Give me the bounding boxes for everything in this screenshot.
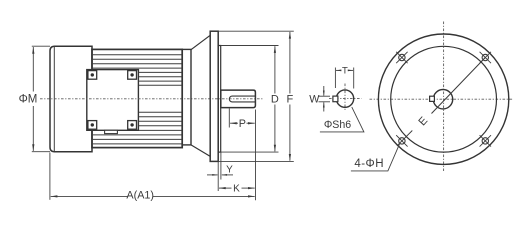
flange view crosshair horizontal: [370, 98, 514, 100]
dimension K right extension / shaft end extension: [255, 110, 257, 201]
dimension Y extensions: [217, 162, 219, 191]
svg-text:T: T: [342, 66, 348, 77]
dimension PhiM extension bottom: [32, 151, 50, 153]
terminal plate: [87, 70, 139, 131]
fan cover: [50, 46, 92, 152]
bolt hole bottom-left: [396, 131, 412, 147]
flange outer circle: [378, 34, 508, 164]
dimension PhiM line lower: [32, 106, 34, 151]
svg-text:E: E: [416, 115, 430, 128]
shaft: [221, 90, 256, 108]
shaft section keyway: [333, 96, 338, 102]
bolt square bottom-left: [88, 121, 97, 130]
svg-text:Y: Y: [226, 165, 233, 176]
dimension F line: [289, 32, 291, 94]
dimension D extensions: [221, 45, 279, 47]
keyway slot: [229, 96, 255, 102]
flange spigot: [218, 46, 221, 153]
dimension W extensions: [319, 95, 331, 97]
svg-text:K: K: [233, 184, 240, 195]
dimension A(A1) left extension: [49, 153, 51, 200]
svg-text:ΦSh6: ΦSh6: [324, 119, 351, 131]
4-PhiH leader: [351, 144, 400, 171]
cooling fins top: [92, 55, 182, 85]
shaft section crosshair: [329, 98, 362, 100]
end bracket: [182, 49, 191, 144]
flange keyway: [430, 96, 435, 101]
flange plate side: [210, 31, 218, 161]
flange view crosshair vertical: [443, 22, 445, 172]
dimension K line: [219, 187, 232, 189]
bolt hole bottom-right: [480, 135, 491, 146]
dimension Y arrows: [207, 174, 218, 176]
dimension A(A1) line: [51, 195, 128, 197]
svg-text:W: W: [309, 94, 320, 106]
dimension P left extension: [228, 109, 230, 128]
dimension T line: [336, 69, 341, 71]
E radius line upper: [432, 58, 486, 114]
plate notch: [105, 130, 118, 133]
bolt hole top-right: [480, 52, 491, 63]
dimension T extensions: [334, 68, 336, 89]
svg-text:4-ΦH: 4-ΦH: [354, 158, 384, 170]
bolt square top-right: [128, 71, 137, 80]
shaft section circle: [336, 90, 353, 107]
svg-text:A(A1): A(A1): [126, 189, 154, 201]
dimension D line: [274, 46, 276, 93]
PhiS leader underline: [320, 107, 364, 132]
dimension PhiM extension top: [32, 45, 50, 47]
bolt square bottom-right: [128, 121, 137, 130]
flange shaft circle: [433, 90, 452, 109]
cooling fins bottom: [92, 112, 182, 144]
dimension P line: [230, 122, 238, 124]
motor body: [92, 49, 182, 147]
bell cone top: [191, 35, 210, 49]
flange inner circle: [391, 46, 497, 152]
centerline left view: [40, 98, 263, 100]
svg-text:P: P: [239, 118, 246, 130]
svg-text:D: D: [271, 94, 279, 106]
fan cover lip line: [53, 47, 55, 152]
svg-text:ΦM: ΦM: [19, 94, 38, 106]
bell cone bottom: [191, 145, 210, 157]
bolt square top-left: [88, 71, 97, 80]
dimension PhiM line upper: [32, 47, 34, 92]
svg-text:F: F: [287, 94, 294, 106]
dimension F extensions: [219, 30, 294, 32]
dimension W arrows: [323, 86, 325, 96]
bolt hole top-left: [396, 52, 407, 63]
